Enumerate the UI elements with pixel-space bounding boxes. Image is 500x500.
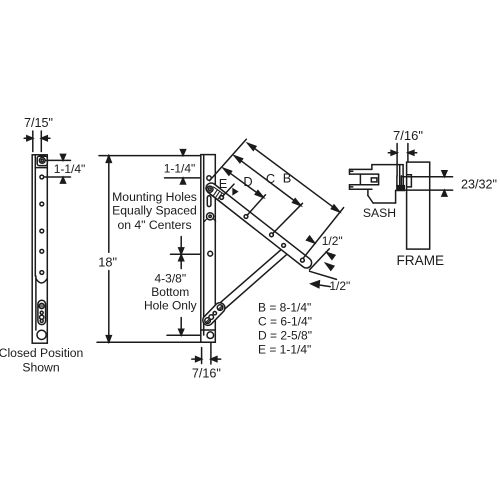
svg-text:7/16": 7/16" [393, 128, 423, 143]
svg-text:FRAME: FRAME [397, 253, 445, 268]
svg-text:1/2": 1/2" [329, 279, 350, 293]
svg-text:D = 2-5/8": D = 2-5/8" [258, 329, 312, 343]
svg-text:E = 1-1/4": E = 1-1/4" [258, 343, 311, 357]
svg-text:1-1/4": 1-1/4" [54, 162, 86, 176]
svg-text:D: D [243, 174, 252, 189]
svg-text:7/15": 7/15" [24, 116, 53, 130]
svg-text:1-1/4": 1-1/4" [164, 162, 196, 176]
svg-text:1/2": 1/2" [322, 234, 343, 248]
svg-text:Shown: Shown [22, 360, 59, 374]
svg-text:Equally Spaced: Equally Spaced [112, 204, 197, 218]
svg-text:B: B [283, 171, 292, 186]
svg-text:SASH: SASH [363, 206, 396, 220]
svg-text:18": 18" [98, 255, 117, 270]
svg-text:Closed Position: Closed Position [0, 346, 83, 360]
svg-text:on 4" Centers: on 4" Centers [117, 218, 191, 232]
svg-text:C: C [266, 171, 275, 186]
svg-text:E: E [219, 176, 228, 191]
svg-text:Bottom: Bottom [151, 285, 189, 299]
svg-text:Hole Only: Hole Only [144, 299, 197, 313]
svg-text:C = 6-1/4": C = 6-1/4" [258, 315, 312, 329]
svg-text:23/32": 23/32" [461, 178, 497, 192]
svg-text:4-3/8": 4-3/8" [154, 272, 186, 286]
svg-text:7/16": 7/16" [192, 367, 221, 381]
svg-text:Mounting Holes: Mounting Holes [112, 190, 197, 204]
svg-text:B = 8-1/4": B = 8-1/4" [258, 301, 311, 315]
